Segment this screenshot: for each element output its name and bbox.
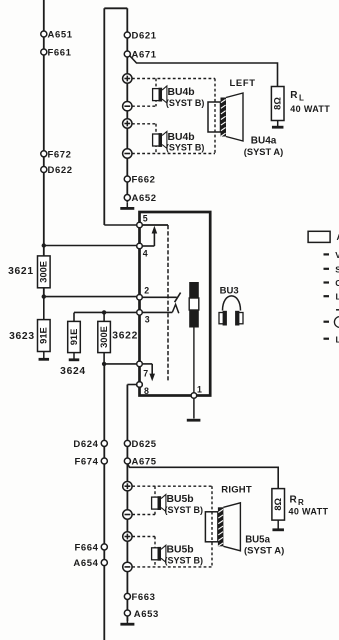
svg-text:S: S (335, 264, 339, 274)
svg-text:5: 5 (143, 214, 148, 224)
svg-text:L: L (336, 292, 339, 302)
svg-text:V: V (335, 250, 339, 260)
svg-text:A653: A653 (134, 609, 159, 620)
svg-text:BU4b: BU4b (168, 132, 195, 143)
svg-text:R: R (290, 90, 298, 101)
svg-text:F674: F674 (74, 457, 98, 468)
svg-text:(SYST A): (SYST A) (244, 147, 283, 157)
svg-text:A675: A675 (132, 457, 157, 468)
svg-text:F663: F663 (132, 592, 156, 603)
svg-text:40 WATT: 40 WATT (289, 506, 329, 516)
svg-text:3622: 3622 (112, 331, 138, 342)
svg-text:A654: A654 (73, 558, 98, 569)
svg-text:F661: F661 (48, 48, 72, 59)
svg-text:A671: A671 (132, 50, 157, 61)
svg-text:8: 8 (144, 386, 149, 396)
svg-text:7: 7 (143, 369, 148, 379)
svg-text:BU4a: BU4a (251, 136, 277, 147)
svg-text:BU5b: BU5b (167, 494, 194, 505)
svg-text:(SYST B): (SYST B) (165, 505, 204, 515)
svg-text:BU5a: BU5a (245, 535, 270, 546)
svg-text:L: L (336, 334, 339, 344)
svg-text:D622: D622 (48, 165, 73, 176)
svg-text:2: 2 (144, 286, 149, 296)
svg-text:BU3: BU3 (220, 285, 239, 296)
svg-text:3624: 3624 (60, 366, 86, 377)
svg-text:3623: 3623 (9, 331, 35, 342)
svg-text:L: L (299, 94, 304, 103)
svg-text:(SYST B): (SYST B) (166, 98, 205, 108)
svg-text:F662: F662 (132, 175, 156, 186)
svg-text:40 WATT: 40 WATT (290, 104, 330, 114)
svg-text:BU5b: BU5b (167, 544, 194, 555)
svg-text:8Ω: 8Ω (273, 497, 283, 510)
svg-text:A651: A651 (48, 30, 73, 41)
svg-text:D621: D621 (132, 31, 157, 42)
svg-text:A652: A652 (132, 193, 157, 204)
svg-text:8Ω: 8Ω (273, 97, 283, 110)
svg-text:(SYST A): (SYST A) (244, 546, 284, 557)
svg-text:(SYST B): (SYST B) (166, 143, 205, 153)
svg-text:300E: 300E (39, 261, 49, 283)
svg-text:LEFT: LEFT (230, 77, 256, 88)
svg-text:RIGHT: RIGHT (221, 485, 252, 496)
svg-text:3: 3 (145, 315, 150, 325)
svg-text:D624: D624 (73, 439, 98, 450)
svg-text:91E: 91E (69, 329, 79, 346)
svg-text:300E: 300E (99, 326, 109, 348)
svg-text:BU4b: BU4b (168, 87, 195, 98)
svg-text:C: C (335, 278, 339, 288)
svg-text:F664: F664 (74, 542, 98, 553)
svg-text:3621: 3621 (8, 266, 34, 277)
svg-text:4: 4 (143, 248, 148, 258)
svg-text:91E: 91E (39, 327, 49, 344)
svg-text:F672: F672 (48, 149, 72, 160)
svg-text:(SYST B): (SYST B) (165, 555, 204, 565)
svg-text:1: 1 (197, 384, 202, 394)
svg-text:R: R (290, 495, 298, 506)
svg-text:D625: D625 (132, 439, 157, 450)
